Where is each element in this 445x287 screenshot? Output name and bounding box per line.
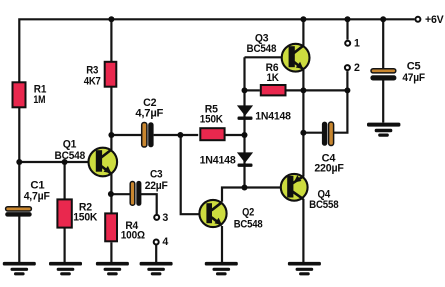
wire Q1 emitter to C3 [111,193,130,195]
svg-text:Q1: Q1 [63,139,77,151]
wire Q1 emitter to R4 [110,174,112,214]
wire top rail and left rail [19,19,414,206]
wire terminal2 down to C4 row [334,71,348,133]
svg-text:BC548: BC548 [234,219,263,231]
wire C5 bottom to ground [382,80,384,122]
wire R6 left stub [245,89,260,91]
capacitor C2 [135,97,164,148]
svg-text:4,7µF: 4,7µF [24,191,51,203]
diode D1 1N4148 [237,105,291,122]
svg-text:4: 4 [162,236,168,248]
wire R5 to diode chain [224,134,245,136]
svg-text:3: 3 [162,212,168,224]
resistor R3 [84,62,117,88]
capacitor C3 [130,168,168,206]
svg-text:C5: C5 [407,60,421,72]
wire terminal1 drop [346,19,348,39]
wire R6 right to terminal2 line [287,89,348,91]
wire C5 top lead [382,19,384,68]
capacitor C1 [5,180,50,217]
wire C1 bottom to ground [18,217,20,263]
svg-text:150K: 150K [200,114,224,126]
wire Q1 base row [19,161,88,163]
svg-text:BC558: BC558 [309,199,339,211]
ground under R4 [96,262,129,276]
junction R6 row / terminal 2 drop [344,87,350,93]
svg-text:+6V: +6V [425,14,444,26]
resistor R6 [261,62,286,96]
resistor R1 [13,82,47,107]
svg-text:100Ω: 100Ω [121,229,146,241]
svg-text:1K: 1K [266,72,279,84]
wire R2 to ground [63,228,65,262]
junction on top rail at R3 [108,16,114,22]
svg-text:Q2: Q2 [242,206,254,218]
svg-text:1N4148: 1N4148 [200,155,236,167]
ground under C5 [367,123,400,137]
junction left rail / Q1 base row [16,159,22,165]
transistor Q2 BC548 npn [199,200,262,231]
wire Q1 collector [110,135,112,150]
wire R4 to ground [110,242,112,262]
resistor R5 [200,104,225,141]
junction Q1 emitter / C3 / R4 [108,191,114,197]
terminal 1 [345,37,360,49]
junction on top rail at C5 [380,16,386,22]
terminal 3 [154,212,168,224]
terminal 4 [154,236,169,248]
ground under C1 [3,262,36,276]
wire C2 to R5 node [154,134,199,136]
wire diode chain vertical [243,57,245,187]
wire C3 to terminal3 [141,194,157,214]
junction Q1 base row / R2 branch [62,159,68,165]
junction Q3 emitter / C4 [300,130,306,136]
svg-text:220µF: 220µF [314,163,344,175]
terminal 2 [345,62,360,74]
transistor Q4 BC558 pnp [281,174,339,211]
junction R5 / diode chain [242,132,248,138]
wire terminal4 to ground [155,245,157,262]
wire Q3 emitter to Q4 [302,70,304,177]
junction diode chain / Q2 collector / Q4 base [242,185,248,191]
wire Q2 emitter to ground [221,226,223,262]
svg-text:C3: C3 [150,168,163,180]
ground under terminal 4 [140,262,173,276]
junction on top rail at terminal 1 [345,16,351,22]
svg-text:47µF: 47µF [402,72,425,84]
svg-text:150K: 150K [73,212,98,224]
svg-text:1M: 1M [33,94,45,106]
wire R2 branch [63,162,65,199]
svg-text:1: 1 [354,37,360,49]
wire node to C2 [111,134,141,136]
wire Q2 collector to Q4 base [222,188,280,202]
resistor R2 [57,199,97,227]
wire R3 bottom to C2 node [110,88,112,136]
transistor Q3 BC548 npn [247,32,310,71]
wire Q4 collector to ground [302,199,304,262]
svg-text:1N4148: 1N4148 [255,110,291,122]
ground under Q4 [288,262,321,276]
capacitor C5 [370,60,425,84]
ground under Q2 [205,262,238,276]
svg-text:4K7: 4K7 [84,75,101,87]
terminal +6V [415,14,443,26]
svg-text:BC548: BC548 [247,43,277,55]
junction on top rail at Q3 collector [300,16,306,22]
wire Q3 collector riser [302,19,304,46]
svg-text:BC548: BC548 [55,150,86,162]
junction R3 / Q1 collector / C2 [108,132,114,138]
junction C2 / R5 / Q2 base drop [177,132,183,138]
ground under R2 [49,262,82,276]
transistor Q1 BC548 npn [55,139,118,177]
svg-text:2: 2 [354,62,360,74]
resistor R4 [105,213,145,241]
wire Q2 base drop [181,135,201,214]
wire Q3 base [245,56,282,58]
svg-text:22µF: 22µF [145,180,169,192]
wire R3 top lead [110,19,112,61]
wire C4 left lead [303,132,322,134]
junction R6 row / Q3 emitter [300,87,306,93]
junction diode chain / R6 [242,87,248,93]
svg-text:4,7µF: 4,7µF [135,107,164,119]
diode D2 1N4148 [200,152,254,167]
capacitor C4 [314,122,344,175]
